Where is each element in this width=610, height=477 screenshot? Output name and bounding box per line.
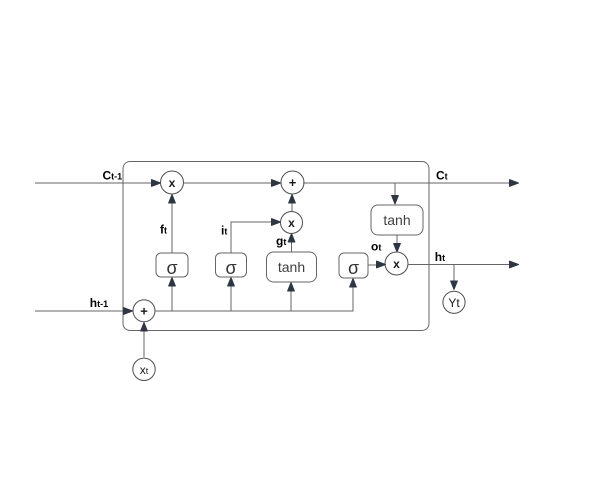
svg-text:x: x — [393, 257, 400, 271]
multiply circle X1 (forget gate product) — [161, 171, 184, 194]
arrowhead into X2 bottom (up) — [288, 234, 295, 243]
arrowhead into sigma2 (up) — [228, 278, 235, 287]
wire branch from c line down to output tanh — [394, 183, 396, 196]
svg-text:x: x — [169, 176, 176, 190]
tanh box U-tanh-g (candidate) — [267, 252, 317, 282]
arrowhead into X1 (up) — [169, 195, 176, 204]
wire tanh-out to X3 — [396, 235, 398, 244]
svg-text:xt: xt — [140, 363, 149, 377]
arrowhead ct output — [510, 180, 519, 187]
add circle PLUS-in (input concat) — [133, 300, 155, 322]
svg-text:σ: σ — [225, 258, 236, 278]
svg-text:x: x — [288, 216, 295, 230]
wire sigma3 to X3 — [368, 264, 377, 266]
svg-text:+: + — [140, 303, 148, 318]
wire X1 to plus circle — [183, 182, 272, 184]
wire X2 up to PLUS — [291, 203, 293, 211]
node xt input circle — [133, 358, 155, 380]
arrowhead into Yt (down) — [451, 281, 458, 290]
svg-text:ht-1: ht-1 — [90, 296, 108, 310]
multiply circle X2 (input*candidate) — [281, 212, 303, 234]
arrowhead into plus input circle — [124, 308, 133, 315]
wire h(t-1) input line — [35, 310, 124, 312]
wire riser to tanh-g — [290, 291, 292, 311]
multiply circle X3 (output product) — [385, 252, 408, 275]
svg-text:+: + — [289, 175, 297, 190]
svg-text:tanh: tanh — [278, 259, 305, 275]
wire c(t-1) input line — [35, 182, 152, 184]
arrowhead into tanh (down) — [392, 196, 399, 205]
wire xt up to PLUS-in — [143, 331, 145, 357]
sigma box S1 (forget gate) — [156, 253, 188, 277]
wire inner h line to gates — [155, 287, 353, 311]
wire riser to sigma2 — [230, 286, 232, 311]
svg-text:ht: ht — [435, 250, 445, 264]
wire riser to sigma1 — [171, 286, 173, 311]
svg-text:ft: ft — [160, 223, 167, 237]
wire h(t) output line — [408, 264, 510, 266]
arrowhead into X3 (right) — [377, 261, 386, 268]
svg-text:tanh: tanh — [383, 212, 410, 228]
arrowhead ht output — [510, 261, 519, 268]
add circle PLUS (cell state sum) — [281, 171, 304, 194]
arrowhead into X2 (right) — [272, 219, 281, 226]
arrowhead into plus circle — [272, 180, 281, 187]
arrowhead into tanh-g (up) — [288, 283, 295, 292]
arrowhead into sigma3 (up) — [350, 279, 357, 288]
wire tanh-g up to X2 — [291, 241, 293, 252]
svg-text:ot: ot — [371, 240, 381, 254]
svg-text:it: it — [221, 224, 227, 238]
wire branch down to Yt — [453, 265, 455, 282]
tanh box U-tanh-out — [371, 205, 423, 235]
svg-text:σ: σ — [348, 258, 359, 278]
sigma box S3 (output gate) — [339, 253, 368, 278]
arrowhead into X3 (down) — [394, 244, 401, 253]
sigma box S2 (input gate) — [216, 253, 247, 277]
arrowhead into multiply X1 — [152, 180, 161, 187]
svg-text:Ct-1: Ct-1 — [103, 169, 123, 183]
wire sigma1 up to X1 — [171, 203, 173, 253]
wire sigma2 up and right to X2 — [231, 222, 272, 253]
node Yt circle — [443, 291, 465, 313]
svg-text:Ct: Ct — [436, 168, 448, 182]
svg-text:Yt: Yt — [448, 296, 460, 310]
wire c(t) output line — [303, 182, 510, 184]
arrowhead into PLUS (up) — [289, 195, 296, 204]
outer LSTM cell box — [123, 162, 429, 331]
svg-text:gt: gt — [276, 234, 286, 248]
svg-text:σ: σ — [166, 258, 177, 278]
arrowhead into sigma1 (up) — [169, 278, 176, 287]
arrowhead into PLUS-in (up) — [141, 323, 148, 332]
